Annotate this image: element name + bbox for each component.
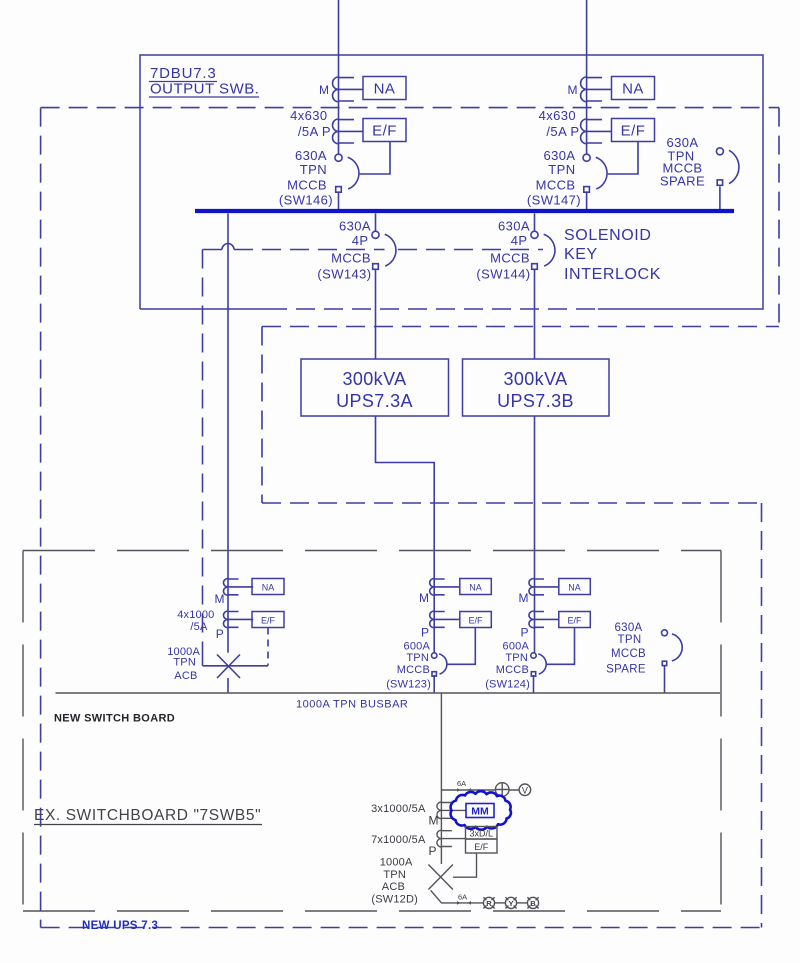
relay box E/F SW123 [460, 612, 492, 628]
svg-text:M: M [419, 591, 429, 605]
svg-text:6A: 6A [457, 779, 466, 788]
wire UPS B output to switchboard [534, 416, 536, 653]
label 630A TPN MCCB (SW147) [527, 148, 581, 208]
CT P feeder A [333, 119, 364, 144]
svg-text:UPS7.3A: UPS7.3A [336, 391, 413, 411]
svg-text:3xD/L: 3xD/L [469, 829, 493, 839]
label NEW UPS 7.3 [82, 920, 158, 932]
svg-text:630A: 630A [544, 148, 576, 163]
label 600A TPN MCCB (SW124) [485, 641, 530, 691]
wire UPS A output elbow to switchboard [376, 416, 435, 653]
fuse 6A top branch [454, 788, 474, 792]
wire ACB to busbar [227, 678, 229, 693]
svg-text:(SW144): (SW144) [476, 267, 530, 282]
svg-text:4P: 4P [352, 233, 369, 248]
svg-text:7x1000/5A: 7x1000/5A [371, 834, 426, 846]
svg-text:600A: 600A [404, 641, 431, 653]
svg-text:MCCB: MCCB [397, 664, 430, 676]
cloud highlight around MM [451, 791, 511, 830]
wire lamp R to Y [495, 902, 506, 904]
label P [520, 626, 528, 640]
relay box NA acb feeder [252, 579, 284, 595]
meter box MM [466, 804, 494, 818]
wire SW147 to busbar [586, 191, 588, 209]
label 6A [457, 779, 466, 788]
svg-text:R: R [486, 899, 492, 908]
label P [421, 626, 429, 640]
CT P switchboard [437, 830, 467, 847]
CT M feeder SW124 [529, 579, 559, 596]
relay box E/F feeder B [612, 119, 655, 142]
CT M switchboard [437, 802, 467, 819]
svg-text:(SW143): (SW143) [317, 267, 371, 282]
label 1000A TPN ACB (SW12D) [371, 857, 418, 906]
label NEW SWITCH BOARD [54, 713, 175, 725]
label OUTPUT SWB. [149, 81, 259, 98]
busbar 7DBU7.3 [195, 209, 734, 213]
CT M feeder SW123 [430, 579, 460, 596]
svg-text:TPN: TPN [406, 652, 429, 664]
wire incoming feeder B top [586, 0, 588, 154]
breaker MCCB SW147 [583, 154, 607, 192]
svg-text:6A: 6A [458, 893, 467, 902]
svg-text:M: M [568, 83, 578, 97]
svg-text:E/F: E/F [567, 616, 582, 626]
relay box NA SW123 [460, 579, 492, 595]
svg-text:TPN: TPN [505, 652, 528, 664]
wire solenoid interlock dashed horizontal with hop [203, 244, 544, 250]
CT P feeder B [581, 119, 612, 144]
label M [568, 83, 578, 97]
svg-text:/5A P: /5A P [298, 124, 331, 139]
svg-text:(SW146): (SW146) [279, 193, 333, 208]
breaker MCCB spare top [716, 148, 739, 186]
svg-text:630A: 630A [339, 219, 371, 234]
lamp R [483, 897, 494, 908]
wire E/F trip connection ACB [267, 628, 269, 666]
svg-text:EX. SWITCHBOARD "7SWB5": EX. SWITCHBOARD "7SWB5" [34, 807, 261, 824]
wire incoming feeder A top [338, 0, 340, 154]
wire fuse branch [441, 789, 519, 791]
svg-text:KEY: KEY [564, 246, 598, 263]
svg-text:E/F: E/F [468, 616, 483, 626]
wire spare lower to busbar [664, 666, 666, 693]
svg-text:NEW SWITCH BOARD: NEW SWITCH BOARD [54, 713, 175, 725]
wire SW123 to busbar [433, 675, 435, 693]
svg-text:4x630: 4x630 [290, 108, 327, 123]
enclosure NEW UPS 7.3 dashed boundary (top edge) [41, 107, 779, 109]
svg-text:630A: 630A [295, 148, 327, 163]
svg-text:NA: NA [622, 81, 644, 98]
svg-text:/5A P: /5A P [546, 124, 579, 139]
wire spare to busbar [719, 187, 721, 210]
svg-text:(SW12D): (SW12D) [371, 894, 418, 906]
label M [429, 814, 439, 828]
svg-text:TPN: TPN [618, 634, 642, 646]
lamp B [527, 897, 538, 908]
svg-text:E/F: E/F [372, 123, 397, 140]
svg-text:4x1000: 4x1000 [177, 609, 214, 621]
CT P feeder SW124 [529, 611, 559, 628]
svg-text:MCCB: MCCB [611, 648, 646, 660]
svg-text:(SW123): (SW123) [386, 679, 431, 691]
svg-text:MCCB: MCCB [490, 251, 530, 266]
lamp Y [505, 897, 516, 908]
wire lamp Y to B [517, 902, 528, 904]
svg-text:(SW124): (SW124) [485, 679, 530, 691]
wire busbar to SW143 [375, 214, 377, 232]
meter voltmeter symbol [519, 784, 531, 796]
breaker ACB SW12D (X symbol) [428, 865, 453, 890]
breaker MCCB SW123 [432, 653, 447, 676]
wire E/F trip connection SW147 [608, 142, 638, 175]
relay box E/F feeder A [363, 119, 406, 142]
label 630A 4P MCCB (SW143) [317, 219, 371, 282]
label 630A TPN MCCB SPARE [660, 135, 705, 189]
svg-text:P: P [216, 627, 224, 641]
breaker MCCB SW146 [335, 154, 359, 192]
label 300kVA UPS7.3A [336, 369, 413, 411]
label SOLENOID KEY INTERLOCK [564, 227, 661, 283]
meter wattmeter symbol [495, 783, 509, 797]
CT M feeder A [333, 77, 364, 102]
svg-text:M: M [215, 592, 225, 606]
label 3x1000/5A [371, 803, 426, 815]
UPS unit B box [463, 359, 610, 416]
label 7x1000/5A [371, 834, 426, 846]
svg-text:NA: NA [262, 583, 275, 593]
relay box E/F SW124 [559, 612, 591, 628]
enclosure 7DBU7.3 output swb solid box [140, 55, 763, 309]
CT M acb feeder [224, 579, 254, 596]
svg-text:MCCB: MCCB [287, 178, 327, 193]
svg-text:NA: NA [469, 583, 482, 593]
svg-text:NEW UPS 7.3: NEW UPS 7.3 [82, 920, 158, 932]
breaker MCCB SW144 [531, 231, 555, 269]
enclosure UPS dashed box bottom edge [262, 502, 762, 504]
wire switchboard feeder down [440, 693, 442, 864]
svg-text:1000A: 1000A [380, 857, 413, 869]
svg-text:M: M [519, 591, 529, 605]
label 1000A TPN BUSBAR [296, 699, 408, 711]
svg-text:(SW147): (SW147) [527, 193, 581, 208]
svg-text:MM: MM [471, 806, 489, 818]
relay box 3xD/L [466, 827, 498, 840]
relay box E/F acb feeder [252, 612, 284, 628]
svg-text:E/F: E/F [474, 842, 489, 852]
label 4x630 /5A P [290, 108, 331, 139]
svg-text:300kVA: 300kVA [503, 369, 567, 389]
enclosure dashed boundary mid edge y=326 [262, 326, 779, 328]
enclosure new switch board dark dashed box [23, 551, 721, 912]
svg-text:1000A TPN BUSBAR: 1000A TPN BUSBAR [296, 699, 408, 711]
enclosure UPS dashed box left edge [261, 327, 263, 504]
svg-text:SPARE: SPARE [606, 664, 646, 676]
breaker MCCB spare lower [662, 630, 683, 666]
svg-text:7DBU7.3: 7DBU7.3 [150, 65, 216, 82]
svg-text:MCCB: MCCB [331, 251, 371, 266]
svg-text:/5A: /5A [190, 621, 208, 633]
svg-text:M: M [319, 83, 329, 97]
svg-text:600A: 600A [503, 641, 530, 653]
breaker MCCB SW143 [372, 231, 396, 269]
svg-text:4P: 4P [511, 233, 528, 248]
wire busbar to left lower feeder [227, 214, 229, 653]
svg-text:UPS7.3B: UPS7.3B [497, 391, 574, 411]
breaker ACB 1000A (X symbol) [217, 655, 240, 679]
svg-text:SOLENOID: SOLENOID [564, 227, 652, 244]
label 630A TPN MCCB (SW146) [279, 148, 333, 208]
wire SW143 to UPS A [375, 269, 377, 360]
svg-text:ACB: ACB [382, 881, 405, 893]
fuse 6A lamp branch [454, 901, 474, 905]
svg-text:INTERLOCK: INTERLOCK [564, 266, 661, 283]
svg-text:ACB: ACB [174, 670, 197, 682]
enclosure dashed boundary left edge [40, 108, 42, 928]
wire busbar to SW144 [534, 214, 536, 232]
wire E/F trip connection SW123 [448, 628, 476, 665]
wire E/F trip connection SW12D [453, 853, 477, 877]
svg-text:E/F: E/F [621, 123, 646, 140]
svg-text:NA: NA [374, 81, 396, 98]
label M [215, 592, 225, 606]
relay box NA feeder A [363, 77, 406, 100]
label P [428, 844, 436, 858]
svg-text:NA: NA [568, 583, 581, 593]
svg-text:TPN: TPN [173, 657, 196, 669]
svg-text:300kVA: 300kVA [342, 369, 406, 389]
svg-text:630A: 630A [498, 219, 530, 234]
label 1000A TPN ACB [167, 646, 200, 682]
label 6A [458, 893, 467, 902]
svg-text:E/F: E/F [261, 616, 276, 626]
CT M feeder B [581, 77, 612, 102]
svg-text:P: P [428, 844, 436, 858]
relay box NA feeder B [612, 77, 655, 100]
CT P feeder SW123 [430, 611, 460, 628]
CT P acb feeder [224, 611, 254, 628]
svg-text:SPARE: SPARE [660, 174, 705, 189]
wire SW124 to busbar [533, 675, 535, 693]
relay box E/F switchboard [466, 839, 498, 853]
label 4x1000 /5A P [177, 609, 224, 641]
svg-text:M: M [429, 814, 439, 828]
wire ACB blade to lamp branch [431, 890, 484, 903]
svg-text:630A: 630A [614, 622, 642, 634]
wire SW146 to busbar [338, 191, 340, 209]
label 300kVA UPS7.3B [497, 369, 574, 411]
svg-text:B: B [530, 899, 536, 908]
relay box NA SW124 [559, 579, 591, 595]
wire SW144 to UPS B [534, 269, 536, 360]
svg-text:P: P [520, 626, 528, 640]
label 4x630 /5A P [539, 108, 580, 139]
svg-text:OUTPUT SWB.: OUTPUT SWB. [150, 81, 259, 98]
label 630A TPN MCCB SPARE lower [606, 622, 646, 676]
svg-text:3x1000/5A: 3x1000/5A [371, 803, 426, 815]
label 600A TPN MCCB (SW123) [386, 641, 431, 691]
wire E/F trip connection SW146 [360, 142, 390, 175]
busbar 1000A TPN [56, 692, 721, 694]
wire solenoid interlock dashed vertical [202, 250, 204, 644]
UPS unit A box [301, 359, 449, 416]
label 630A 4P MCCB (SW144) [476, 219, 530, 282]
svg-text:TPN: TPN [548, 162, 575, 177]
svg-text:MCCB: MCCB [496, 664, 529, 676]
label M [519, 591, 529, 605]
svg-text:TPN: TPN [300, 162, 327, 177]
enclosure dashed boundary bottom edge [41, 927, 762, 929]
label M [319, 83, 329, 97]
svg-text:P: P [421, 626, 429, 640]
svg-text:Y: Y [508, 899, 513, 908]
breaker MCCB SW124 [531, 653, 546, 676]
wire E/F trip connection SW124 [547, 628, 575, 665]
label EX. SWITCHBOARD "7SWB5" [34, 807, 262, 825]
label M [419, 591, 429, 605]
enclosure dashed boundary right edge lower [761, 503, 763, 928]
svg-text:TPN: TPN [383, 869, 406, 881]
wire interlock to ACB [203, 644, 269, 666]
svg-text:4x630: 4x630 [539, 108, 576, 123]
svg-text:MCCB: MCCB [536, 178, 576, 193]
enclosure dashed boundary right edge upper [778, 108, 780, 327]
label 7DBU7.3 [149, 65, 217, 82]
svg-text:V: V [522, 786, 528, 796]
